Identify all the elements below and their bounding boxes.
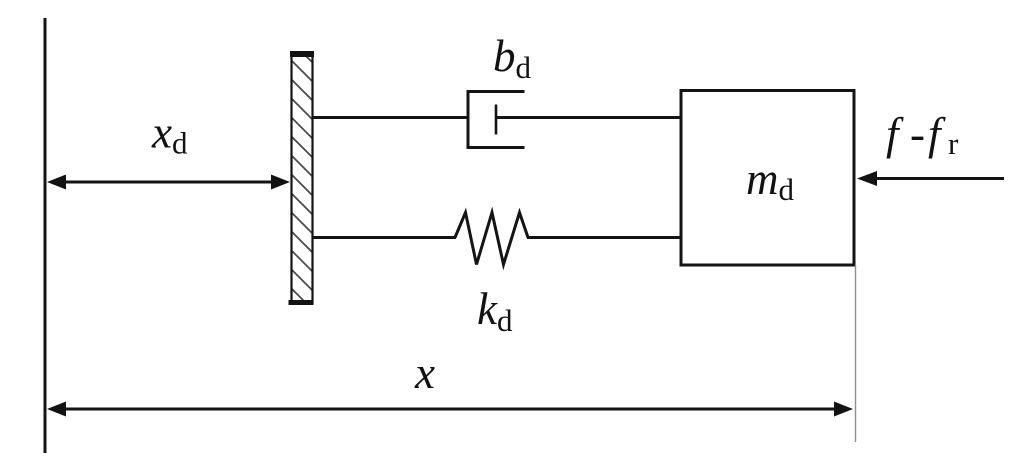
extension line below mass (right, thin gray): [855, 265, 857, 442]
reference datum line (left vertical): [44, 18, 47, 453]
svg-text:r: r: [948, 126, 959, 161]
dimension arrow x (double-headed): [47, 402, 853, 417]
wall (hatched fixed support): [288, 38, 318, 315]
svg-text:f: f: [928, 109, 946, 159]
wire: damper piston rod to mass: [496, 116, 681, 119]
dimension arrow x_d (double-headed): [47, 175, 290, 190]
mass block m_d: [681, 91, 854, 266]
spring k_d (zigzag): [455, 213, 528, 265]
svg-text:-: -: [910, 109, 925, 159]
svg-text:kd: kd: [477, 284, 513, 338]
force arrow f - f_r (points left into mass): [857, 171, 1004, 186]
svg-text:x: x: [414, 348, 435, 398]
damper b_d (dashpot): [467, 90, 525, 149]
wire: wall to damper cylinder: [313, 116, 468, 119]
wire: spring to mass: [527, 236, 681, 239]
svg-text:xd: xd: [151, 108, 188, 161]
svg-text:f: f: [886, 109, 904, 159]
svg-text:bd: bd: [493, 31, 532, 85]
wire: wall to spring: [313, 236, 456, 239]
